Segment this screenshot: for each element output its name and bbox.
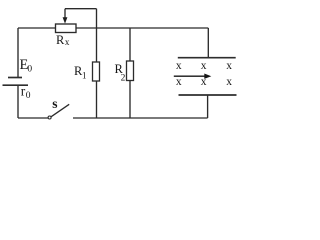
svg-text:s: s [52,96,57,111]
svg-text:0: 0 [26,91,31,101]
wire wiper top bar [65,8,97,10]
wire left side [17,28,19,77]
wire R2 top lead [129,28,131,61]
wire top-left segment [18,27,56,29]
capacitor plate top [178,57,236,59]
resistor R2 body [127,61,134,81]
svg-text:x: x [226,76,232,88]
svg-text:x: x [176,76,182,88]
svg-text:0: 0 [27,65,32,75]
wire top-right segment [76,27,208,29]
wire bottom-right segment [73,117,208,119]
wire R1 top lead [96,28,98,62]
battery E0 short plate [8,77,22,79]
svg-text:x: x [226,60,232,72]
arrow wiper head [63,17,68,23]
switch S contact circle [48,116,51,119]
wire right side upper [207,28,209,57]
battery E0 long plate [3,84,29,86]
svg-text:x: x [201,76,207,88]
switch S blade [51,104,69,117]
wire R2 bottom lead [129,81,131,119]
wire right side lower [207,95,209,118]
wire wiper right drop [96,9,98,28]
svg-text:1: 1 [82,71,87,81]
wire R1 bottom lead [96,81,98,118]
wire wiper stem [64,9,66,18]
wire bottom-left segment [18,117,48,119]
svg-text:x: x [176,60,182,72]
resistor R1 body [93,62,100,81]
arrow velocity v [174,75,206,77]
svg-text:2: 2 [121,73,126,83]
capacitor plate bottom [179,94,237,96]
svg-text:R: R [56,33,65,47]
svg-text:x: x [65,37,70,47]
svg-text:x: x [201,60,207,72]
wire left lower [17,85,19,118]
potentiometer Rx body [56,24,77,33]
